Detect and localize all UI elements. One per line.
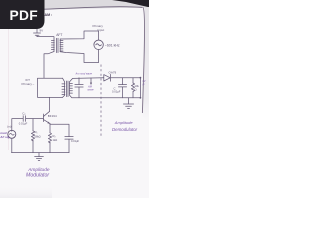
photo top background strip: [40, 0, 149, 10]
coupling capacitor C2: [23, 116, 25, 122]
transformer AFT left winding: [51, 39, 54, 52]
bypass capacitor C3: [50, 124, 73, 152]
load resistor R3: [131, 78, 134, 98]
svg-text:OA79: OA79: [109, 71, 117, 75]
wire AF source to C2: [12, 119, 23, 132]
ink labels (dark): [7, 24, 139, 143]
bottom-left page shading: [0, 186, 52, 198]
diode OA79: [104, 74, 111, 81]
demodulator bottom wire: [70, 95, 141, 98]
wire AFT left-bottom down to IFT box: [44, 52, 54, 78]
output terminal line: [140, 77, 142, 99]
battery 9V: [34, 27, 41, 37]
page background: [0, 0, 149, 198]
ground modulator: [35, 153, 44, 161]
paper right edge line: [142, 7, 144, 113]
svg-text:P: P: [143, 82, 145, 86]
right-of-page shading: [142, 7, 149, 122]
svg-text:wave: wave: [88, 89, 95, 92]
svg-text:Amplitude: Amplitude: [27, 167, 50, 173]
paper top edge line: [44, 7, 143, 9]
svg-text:AF sig: AF sig: [0, 135, 10, 139]
IFT primary box: [38, 78, 63, 97]
transistor BF194: [44, 98, 51, 124]
demodulator top wire right of diode: [111, 77, 140, 79]
dark photo corner wedge top-right: [112, 0, 149, 7]
wire AFT right-bottom to oscillator: [60, 50, 98, 63]
ground demodulator: [123, 98, 133, 109]
svg-text:BF194: BF194: [48, 114, 57, 118]
svg-text:AM :: AM :: [45, 13, 53, 17]
wire AFT right-top to oscillator: [60, 31, 98, 40]
bias resistor R1: [31, 119, 34, 153]
svg-text:R₂: R₂: [53, 134, 56, 138]
transformer IFT left winding: [62, 78, 65, 97]
AM-wave pointer arrow: [90, 78, 92, 85]
wire battery to AFT: [37, 37, 54, 39]
svg-text:AFT: AFT: [56, 33, 62, 37]
oscillator source circle: [94, 40, 103, 49]
transformer IFT core: [66, 81, 68, 97]
wire AF source down: [11, 138, 13, 152]
PDF badge: [0, 0, 45, 29]
svg-text:Primary: Primary: [93, 24, 104, 28]
svg-text:Input: Input: [98, 28, 105, 32]
svg-text:R₁: R₁: [35, 130, 38, 134]
svg-text:~601 kHz: ~601 kHz: [105, 43, 120, 47]
filter capacitor C4: [118, 78, 126, 98]
purple handwriting labels: [0, 71, 147, 178]
transformer AFT right winding: [60, 39, 63, 52]
svg-text:PDF: PDF: [10, 8, 39, 23]
svg-text:mod: mod: [0, 131, 7, 135]
svg-text:9V: 9V: [40, 29, 44, 33]
transformer IFT right winding: [69, 82, 72, 96]
transformer AFT core: [56, 38, 58, 52]
dashed separator line: [100, 65, 102, 138]
svg-text:Modulator: Modulator: [26, 173, 49, 179]
wire C2 to transistor base: [26, 118, 44, 120]
tank capacitor: [75, 78, 83, 98]
demodulator top wire left of diode: [70, 78, 104, 82]
svg-text:(m): (m): [7, 125, 11, 129]
svg-text:Demodulator: Demodulator: [112, 127, 138, 132]
svg-text:Primary→: Primary→: [22, 82, 35, 86]
svg-text:IFT: IFT: [26, 78, 31, 82]
svg-text:Amplitude: Amplitude: [114, 120, 134, 125]
AF source circle: [8, 130, 16, 138]
notebook margin line: [8, 27, 10, 150]
emitter resistor R2: [48, 124, 51, 153]
modulator bottom wire: [12, 152, 70, 154]
